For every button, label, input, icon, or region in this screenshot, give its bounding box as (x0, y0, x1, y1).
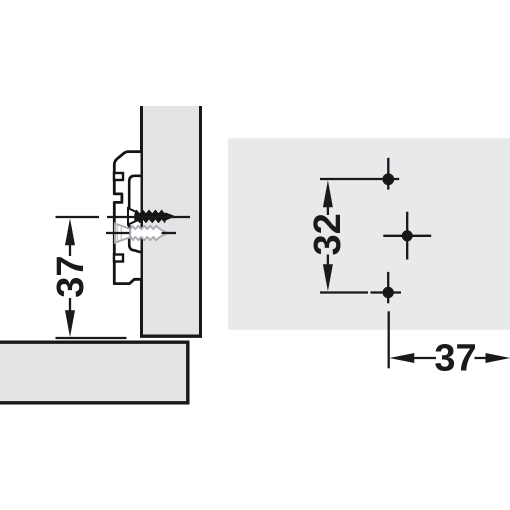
svg-text:37: 37 (434, 338, 476, 380)
svg-text:32: 32 (307, 213, 349, 255)
svg-text:37: 37 (50, 255, 92, 297)
